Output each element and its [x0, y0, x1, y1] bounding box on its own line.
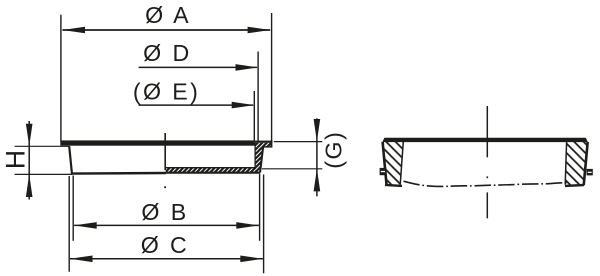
H arrow top [26, 124, 33, 147]
ext line ØE [253, 91, 255, 142]
ext line ØD [257, 52, 259, 142]
svg-text:Ø C: Ø C [141, 232, 189, 258]
lip right edge [270, 141, 272, 148]
left wall hatch [384, 142, 404, 185]
svg-text:Ø A: Ø A [145, 2, 191, 28]
flange band [60, 140, 255, 145]
bottom band top edge [166, 167, 256, 169]
centerline right view top [486, 106, 488, 157]
(G) arrow top [314, 119, 321, 142]
arrow ØA left [62, 27, 85, 34]
dim line ØB [74, 224, 259, 226]
arrow ØE [232, 102, 255, 109]
bottom band bottom edge [166, 172, 261, 174]
lip bottom edge [263, 146, 273, 148]
right bottom edge [565, 184, 584, 187]
ext line ØA left [60, 15, 62, 142]
wall outer edge [260, 147, 263, 172]
dim line ØD [139, 66, 257, 68]
right tab [587, 169, 593, 176]
flange top line over lip [255, 141, 273, 143]
svg-text:(G): (G) [321, 131, 347, 169]
H dim bottom ext line [15, 173, 73, 175]
(G) top ext line [274, 141, 323, 143]
(G) arrow bottom [314, 169, 321, 192]
wall hatch [255, 147, 263, 172]
skirt left wall [69, 146, 72, 173]
ext line ØC left [68, 176, 70, 272]
bottom band hatch [166, 168, 256, 173]
centerline dot right view [487, 176, 489, 178]
svg-text:H: H [1, 150, 31, 169]
right inner wall [565, 142, 566, 185]
dim line ØE [139, 104, 254, 106]
arrow ØD [236, 64, 259, 71]
lip hatch [255, 143, 271, 147]
right wall hatch [566, 142, 587, 185]
flange band right view [382, 138, 588, 142]
right outer wall [584, 142, 588, 185]
ext line ØB left [72, 176, 74, 241]
ext line ØB right [259, 174, 261, 241]
ext line ØC right [263, 175, 265, 274]
arrow ØB left [74, 222, 97, 229]
dim line ØA [62, 29, 270, 31]
arrow ØA right [248, 27, 271, 34]
ext line ØA right [271, 13, 273, 142]
wavy membrane line [404, 181, 568, 186]
arrow ØC left [70, 256, 93, 263]
left tab [380, 168, 387, 175]
skirt bottom edge left half [71, 172, 166, 175]
svg-text:Ø D: Ø D [143, 40, 191, 66]
(G) dim line [316, 118, 318, 196]
centerline left view [164, 133, 166, 170]
left inner wall [400, 142, 403, 185]
svg-text:Ø B: Ø B [141, 199, 188, 225]
centerline dot left view [164, 186, 166, 188]
arrow ØC right [240, 256, 263, 263]
arrow ØB right [236, 222, 259, 229]
centerline right view bottom [486, 192, 488, 218]
H arrow bottom [26, 174, 33, 197]
H dim top ext line [15, 145, 70, 147]
left outer wall [383, 142, 387, 185]
(G) bottom ext line [262, 168, 322, 170]
wall inner edge [254, 143, 256, 168]
svg-text:(Ø E): (Ø E) [133, 78, 200, 104]
dim line ØC [70, 258, 263, 260]
left bottom edge [385, 185, 402, 186]
H dim line [28, 121, 30, 200]
